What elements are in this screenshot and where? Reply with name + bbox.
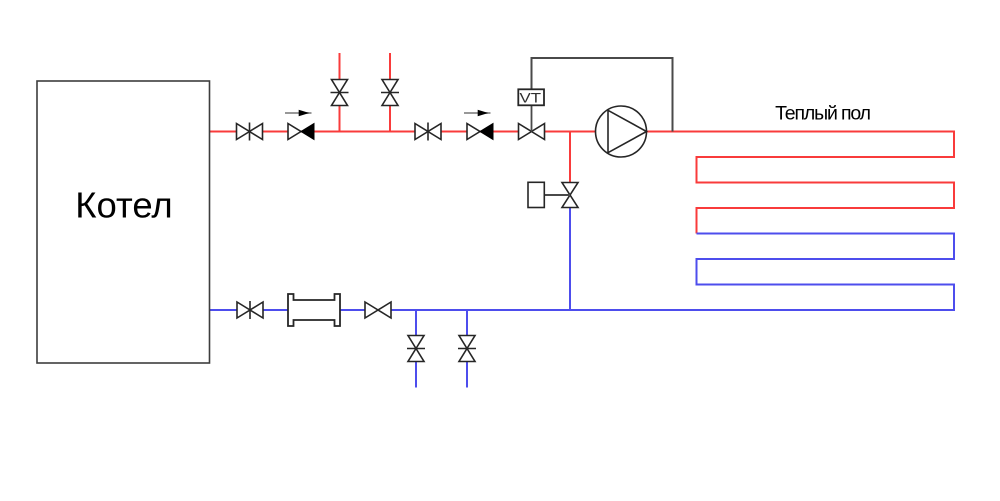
check valve K1 (supply) xyxy=(288,124,314,140)
wire: drain branch 2 (blue) xyxy=(466,310,468,388)
ball valve V2 (supply) xyxy=(415,123,441,141)
return pipe (blue, floor loop to boiler) xyxy=(210,234,954,311)
union / filter fitting xyxy=(288,294,340,326)
thermostatic valve VT xyxy=(519,105,545,139)
check valve K2 (supply) xyxy=(467,124,493,140)
drain valve D2 xyxy=(458,336,476,362)
flow arrow above K1 xyxy=(285,110,312,117)
VT head box xyxy=(518,89,544,105)
riser valve B2 xyxy=(381,80,399,106)
svg-text:Котел: Котел xyxy=(75,185,172,226)
wire: mixing junction drop (red) xyxy=(569,132,571,183)
valve actuator box xyxy=(528,182,570,207)
wire: branch riser 2 (red) xyxy=(389,53,391,132)
ball valve V4 (return) xyxy=(365,302,391,318)
wire: branch riser 1 (red) xyxy=(339,53,341,132)
supply pipe (red, boiler to floor loop) xyxy=(210,132,954,234)
ball valve V1 (supply) xyxy=(237,123,263,141)
wire: drain branch 1 (blue) xyxy=(415,310,417,388)
ball valve V3 (return) xyxy=(237,301,263,319)
controller loop wire (dark) xyxy=(532,58,673,132)
pump P1 xyxy=(596,106,647,157)
three-way mixing valve xyxy=(562,183,578,208)
flow arrow above K2 xyxy=(464,110,491,117)
drain valve D1 xyxy=(407,336,425,362)
svg-text:Теплый пол: Теплый пол xyxy=(775,103,871,125)
boiler xyxy=(37,81,210,363)
riser valve B1 xyxy=(331,80,349,106)
svg-text:VT: VT xyxy=(520,90,542,106)
wire: mixing valve to return (blue) xyxy=(569,208,571,311)
